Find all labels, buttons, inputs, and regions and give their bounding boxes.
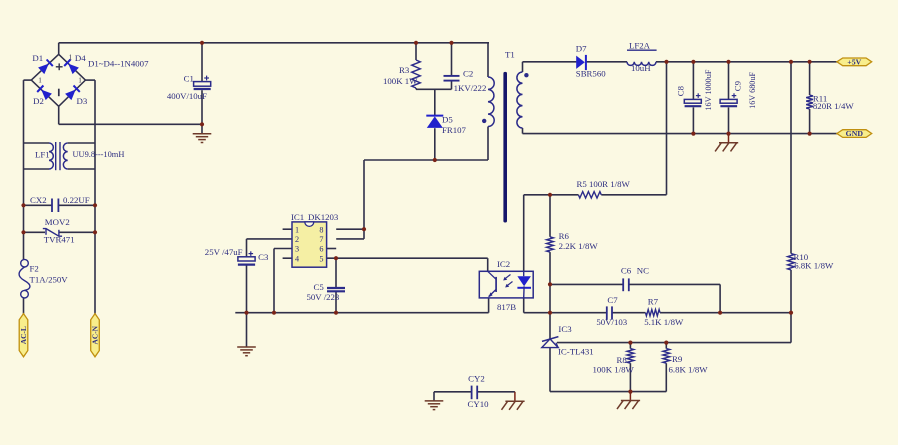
svg-text:C9: C9 <box>733 80 743 91</box>
svg-text:1: 1 <box>295 225 299 234</box>
svg-text:16V 680uF: 16V 680uF <box>748 72 757 109</box>
svg-text:D5: D5 <box>442 115 453 125</box>
svg-text:D1: D1 <box>32 53 43 63</box>
svg-text:1KV/222: 1KV/222 <box>454 83 487 93</box>
svg-text:2.2K 1/8W: 2.2K 1/8W <box>559 241 599 251</box>
svg-text:8: 8 <box>319 225 323 234</box>
svg-text:R3: R3 <box>399 65 410 75</box>
svg-text:C7: C7 <box>607 295 618 305</box>
svg-text:C3: C3 <box>258 252 269 262</box>
svg-text:AC-N: AC-N <box>91 325 100 344</box>
svg-text:R7: R7 <box>648 297 659 307</box>
svg-text:NC: NC <box>637 265 649 275</box>
svg-text:6: 6 <box>319 245 323 254</box>
svg-text:1: 1 <box>69 54 73 62</box>
svg-text:25V /47uF: 25V /47uF <box>205 247 243 257</box>
svg-text:SBR560: SBR560 <box>576 69 606 79</box>
svg-text:R6: R6 <box>559 231 570 241</box>
svg-text:CX2: CX2 <box>30 195 47 205</box>
svg-text:C2: C2 <box>463 68 473 78</box>
svg-text:C5: C5 <box>314 282 325 292</box>
svg-text:400V/10uF: 400V/10uF <box>167 91 207 101</box>
svg-text:5.1K 1/8W: 5.1K 1/8W <box>644 317 684 327</box>
svg-text:IC1: IC1 <box>291 212 304 222</box>
svg-text:D3: D3 <box>77 96 88 106</box>
svg-text:DK1203: DK1203 <box>308 212 339 222</box>
svg-text:2: 2 <box>295 235 299 244</box>
svg-text:GND: GND <box>846 129 864 138</box>
svg-text:6.8K 1/8W: 6.8K 1/8W <box>669 364 709 374</box>
svg-text:T1: T1 <box>505 49 515 59</box>
svg-text:+5V: +5V <box>847 57 861 66</box>
svg-text:817B: 817B <box>497 302 516 312</box>
svg-text:LF1: LF1 <box>35 150 50 160</box>
svg-text:FR107: FR107 <box>442 125 467 135</box>
svg-text:IC3: IC3 <box>558 324 572 334</box>
svg-text:0.22UF: 0.22UF <box>63 195 90 205</box>
svg-text:100K 1W: 100K 1W <box>383 76 418 86</box>
svg-text:AC-L: AC-L <box>19 326 28 344</box>
svg-text:TVR471: TVR471 <box>44 235 75 245</box>
svg-text:50V /223: 50V /223 <box>307 292 340 302</box>
svg-text:F2: F2 <box>30 264 39 274</box>
svg-text:IC-TL431: IC-TL431 <box>558 347 594 357</box>
svg-text:1: 1 <box>78 77 82 85</box>
svg-text:R9: R9 <box>672 354 683 364</box>
svg-text:D1~D4--1N4007: D1~D4--1N4007 <box>88 59 149 69</box>
svg-text:C6: C6 <box>621 265 632 275</box>
svg-text:C8: C8 <box>676 85 686 96</box>
svg-text:4: 4 <box>295 254 299 263</box>
svg-text:D4: D4 <box>75 53 86 63</box>
svg-text:MOV2: MOV2 <box>45 217 70 227</box>
svg-text:CY2: CY2 <box>468 374 485 384</box>
svg-text:D2: D2 <box>33 96 44 106</box>
svg-text:5: 5 <box>319 254 323 263</box>
svg-text:50V/103: 50V/103 <box>596 317 627 327</box>
svg-text:UU9.8---10mH: UU9.8---10mH <box>73 150 125 159</box>
svg-text:1: 1 <box>38 77 42 85</box>
svg-text:3: 3 <box>295 245 299 254</box>
svg-text:7: 7 <box>319 235 323 244</box>
svg-text:IC2: IC2 <box>497 259 510 269</box>
svg-text:CY10: CY10 <box>468 399 490 409</box>
svg-text:C1: C1 <box>184 74 194 84</box>
svg-text:100K 1/8W: 100K 1/8W <box>593 364 635 374</box>
svg-text:T1A/250V: T1A/250V <box>30 274 69 284</box>
svg-text:6.8K 1/8W: 6.8K 1/8W <box>794 261 834 271</box>
svg-text:820R 1/4W: 820R 1/4W <box>813 101 855 111</box>
svg-text:R5 100R 1/8W: R5 100R 1/8W <box>577 179 631 189</box>
svg-text:10uH: 10uH <box>631 63 651 73</box>
svg-text:LF2A: LF2A <box>629 41 651 51</box>
svg-text:16V 1000uF: 16V 1000uF <box>704 69 713 110</box>
svg-text:D7: D7 <box>576 43 587 53</box>
